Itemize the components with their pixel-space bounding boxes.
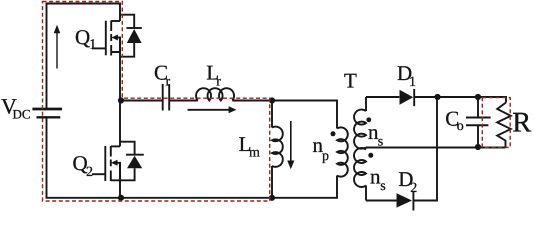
- svg-text:1: 1: [409, 75, 416, 90]
- svg-text:T: T: [344, 69, 357, 93]
- svg-text:2: 2: [86, 165, 93, 180]
- svg-text:1: 1: [89, 38, 96, 53]
- svg-text:DC: DC: [13, 107, 31, 122]
- svg-text:s: s: [378, 135, 383, 150]
- svg-text:r: r: [216, 75, 221, 90]
- svg-text:r: r: [166, 75, 171, 90]
- svg-text:o: o: [457, 119, 464, 134]
- svg-text:2: 2: [410, 181, 417, 196]
- svg-text:m: m: [249, 146, 260, 161]
- svg-text:R: R: [512, 107, 531, 138]
- svg-text:s: s: [380, 179, 385, 194]
- svg-text:Q: Q: [75, 25, 90, 49]
- svg-text:p: p: [322, 149, 329, 164]
